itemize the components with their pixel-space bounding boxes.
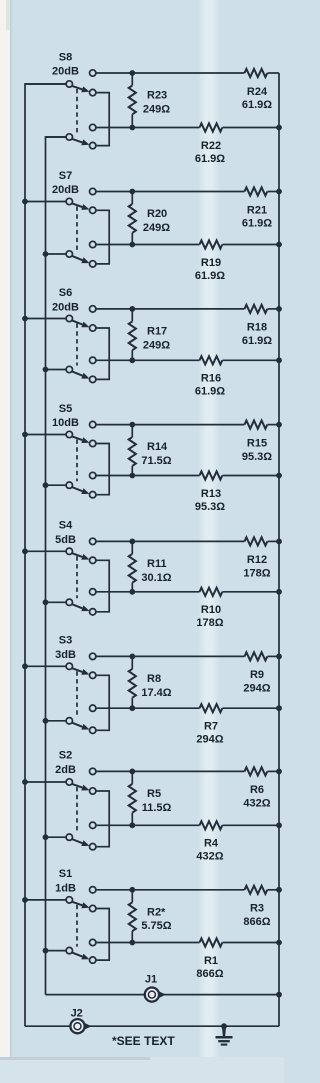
svg-text:178Ω: 178Ω — [243, 568, 270, 580]
wire: S7 top row — [96, 191, 245, 193]
resistor R16 61.9Ω — [200, 356, 223, 364]
node: S7 junctions — [129, 189, 135, 195]
wire: S1 pole 1 stub — [25, 899, 66, 901]
svg-text:R22: R22 — [201, 140, 221, 152]
wire: S2 pole 2 stub — [46, 836, 67, 838]
switch S3 pole/throw contacts — [90, 653, 96, 659]
wire: S5 pole 1 stub — [25, 434, 66, 436]
switch S4 pole/throw contacts — [90, 538, 96, 544]
svg-text:R12: R12 — [247, 554, 267, 566]
svg-text:S8: S8 — [59, 51, 72, 63]
wire: S1 pole 2 stub — [46, 950, 67, 952]
switch S8 pole/throw contacts — [90, 70, 96, 76]
switch S1 lever arrows — [72, 902, 83, 906]
wire: S6 mid row — [96, 359, 200, 361]
svg-text:J2: J2 — [71, 1008, 83, 1020]
resistor R3 866Ω — [245, 886, 268, 894]
switch S6 pole/throw contacts — [90, 306, 96, 312]
svg-text:S5: S5 — [59, 403, 72, 415]
switch S7 pole/throw contacts — [90, 188, 96, 194]
switch S8 gang link (dashed) — [76, 89, 78, 133]
wire: S5 bypass link — [96, 444, 109, 495]
wire: S2 top row — [96, 770, 245, 772]
node: S6 junctions — [129, 306, 135, 312]
svg-text:R20: R20 — [147, 208, 167, 220]
svg-text:R9: R9 — [250, 669, 264, 681]
wire: left bus B (pole-2 bus, top corner to J1 row) — [46, 137, 67, 995]
node: J1 row meets right bus — [276, 992, 282, 998]
svg-text:61.9Ω: 61.9Ω — [195, 386, 225, 398]
switch S6 lever arrows — [72, 320, 83, 324]
svg-text:S4: S4 — [59, 520, 73, 532]
resistor R24 61.9Ω — [245, 69, 268, 77]
svg-text:95.3Ω: 95.3Ω — [242, 451, 272, 463]
wire: S4 top row — [96, 540, 245, 542]
switch S2 gang link (dashed) — [76, 787, 78, 833]
svg-text:R4: R4 — [204, 838, 219, 850]
svg-text:R13: R13 — [201, 488, 221, 500]
resistor R5 11.5Ω — [131, 771, 133, 784]
svg-text:61.9Ω: 61.9Ω — [242, 99, 272, 111]
resistor R14 71.5Ω — [131, 425, 133, 438]
wire: S4 pole 1 stub — [25, 550, 66, 552]
svg-text:R10: R10 — [201, 604, 221, 616]
svg-text:R5: R5 — [147, 788, 161, 800]
svg-text:20dB: 20dB — [52, 184, 79, 196]
wire: S2 pole 1 stub — [25, 781, 66, 783]
resistor R11 30.1Ω — [131, 541, 133, 554]
svg-text:S2: S2 — [59, 750, 72, 762]
svg-text:249Ω: 249Ω — [143, 339, 170, 351]
switch S5 pole/throw contacts — [90, 421, 96, 427]
wire: S6 bypass link — [96, 328, 109, 379]
svg-text:R24: R24 — [247, 86, 268, 98]
svg-text:S3: S3 — [59, 635, 72, 647]
resistor R12 178Ω — [245, 537, 268, 545]
svg-text:294Ω: 294Ω — [196, 734, 223, 746]
svg-text:20dB: 20dB — [52, 66, 79, 78]
svg-text:R2*: R2* — [147, 906, 166, 918]
wire: S7 bypass link — [96, 210, 109, 264]
resistor R8 17.4Ω — [131, 656, 133, 669]
svg-text:866Ω: 866Ω — [243, 916, 270, 928]
svg-text:20dB: 20dB — [52, 302, 79, 314]
svg-text:5dB: 5dB — [55, 534, 76, 546]
node: S2 junctions — [129, 769, 135, 775]
svg-text:R21: R21 — [247, 204, 267, 216]
wire: S4 pole 2 stub — [46, 601, 67, 603]
wire: J1 row — [46, 994, 280, 996]
switch S1 pole/throw contacts — [90, 887, 96, 893]
wire: S1 mid row — [96, 942, 200, 944]
wire: S8 pole 1 stub — [25, 83, 66, 85]
resistor R18 61.9Ω — [245, 305, 268, 313]
wire: S1 top row — [96, 889, 245, 891]
resistor R17 249Ω — [131, 309, 133, 322]
svg-text:71.5Ω: 71.5Ω — [141, 455, 171, 467]
svg-text:249Ω: 249Ω — [143, 103, 170, 115]
wire: S3 pole 1 stub — [25, 665, 66, 667]
svg-text:R15: R15 — [247, 437, 267, 449]
switch S1 gang link (dashed) — [76, 905, 78, 947]
resistor R1 866Ω — [200, 938, 223, 946]
svg-text:R14: R14 — [147, 441, 168, 453]
svg-text:1dB: 1dB — [55, 882, 76, 894]
switch S7 lever arrows — [72, 203, 83, 207]
wire: left bus A (pole-1 bus, top corner to J2 row) — [25, 84, 66, 1026]
wire: S4 mid row — [96, 591, 200, 593]
resistor R23 249Ω — [131, 73, 133, 86]
wire: S3 mid row — [96, 707, 200, 709]
wire: S4 bypass link — [96, 560, 109, 612]
switch S2 pole/throw contacts — [90, 768, 96, 774]
svg-text:17.4Ω: 17.4Ω — [141, 687, 171, 699]
switch S2 lever arrows — [72, 784, 83, 788]
wire: S8 pole 2 stub — [46, 136, 67, 138]
svg-text:*SEE TEXT: *SEE TEXT — [112, 1034, 175, 1048]
wire: S7 pole 2 stub — [46, 253, 67, 255]
wire: S6 pole 1 stub — [25, 318, 66, 320]
wire: S5 top row — [96, 424, 245, 426]
svg-text:10dB: 10dB — [52, 417, 79, 429]
wire: S2 mid row — [96, 824, 200, 826]
resistor R9 294Ω — [245, 652, 268, 660]
wire: S8 mid row — [96, 127, 200, 129]
svg-text:R23: R23 — [147, 90, 167, 102]
resistor R19 61.9Ω — [200, 240, 223, 248]
wire: S1 bypass link — [96, 909, 109, 961]
svg-text:61.9Ω: 61.9Ω — [242, 335, 272, 347]
resistor R20 249Ω — [131, 192, 133, 205]
wire: S8 bypass link — [96, 93, 109, 146]
wire: S6 top row — [96, 308, 245, 310]
wire: S5 mid row — [96, 475, 200, 477]
wire: S5 pole 2 stub — [46, 484, 67, 486]
node: S1 junctions — [129, 887, 135, 893]
svg-text:294Ω: 294Ω — [243, 683, 270, 695]
svg-text:866Ω: 866Ω — [196, 968, 223, 980]
resistor R6 432Ω — [245, 767, 268, 775]
switch S7 gang link (dashed) — [76, 207, 78, 251]
svg-text:R1: R1 — [204, 955, 218, 967]
switch S3 gang link (dashed) — [76, 671, 78, 717]
wire: S3 top row — [96, 655, 245, 657]
wire: right ground bus — [278, 73, 280, 1026]
svg-text:61.9Ω: 61.9Ω — [242, 218, 272, 230]
svg-text:R3: R3 — [250, 903, 264, 915]
resistor R15 95.3Ω — [245, 421, 268, 429]
resistor R21 61.9Ω — [245, 187, 268, 195]
switch S3 lever arrows — [72, 668, 83, 672]
resistor R4 432Ω — [200, 821, 223, 829]
switch S6 gang link (dashed) — [76, 324, 78, 366]
node: S8 junctions — [129, 70, 135, 76]
resistor R13 95.3Ω — [200, 471, 223, 479]
resistor R22 61.9Ω — [200, 123, 223, 131]
svg-text:61.9Ω: 61.9Ω — [195, 153, 225, 165]
svg-text:5.75Ω: 5.75Ω — [141, 920, 171, 932]
resistor R7 294Ω — [200, 704, 223, 712]
wire: S7 pole 1 stub — [25, 201, 66, 203]
svg-text:J1: J1 — [145, 973, 157, 985]
svg-text:S6: S6 — [59, 287, 72, 299]
svg-text:30.1Ω: 30.1Ω — [141, 572, 171, 584]
wire: S2 bypass link — [96, 791, 109, 847]
svg-text:S1: S1 — [59, 868, 72, 880]
svg-text:R17: R17 — [147, 326, 167, 338]
resistor R2* 5.75Ω — [131, 890, 133, 903]
svg-text:R18: R18 — [247, 322, 267, 334]
svg-text:R19: R19 — [201, 257, 221, 269]
ground — [221, 1023, 227, 1029]
switch S5 lever arrows — [72, 436, 83, 440]
node: S3 junctions — [129, 654, 135, 660]
wire: S7 mid row — [96, 244, 200, 246]
svg-text:R16: R16 — [201, 373, 221, 385]
svg-text:R7: R7 — [204, 721, 218, 733]
svg-text:249Ω: 249Ω — [143, 222, 170, 234]
node: S4 junctions — [129, 539, 135, 545]
svg-text:R6: R6 — [250, 784, 264, 796]
svg-text:R11: R11 — [147, 558, 167, 570]
svg-text:R8: R8 — [147, 673, 161, 685]
wire: S8 top row — [96, 72, 245, 74]
wire: S3 bypass link — [96, 675, 109, 730]
svg-text:95.3Ω: 95.3Ω — [195, 501, 225, 513]
svg-text:432Ω: 432Ω — [196, 851, 223, 863]
svg-text:2dB: 2dB — [55, 764, 76, 776]
svg-text:11.5Ω: 11.5Ω — [142, 802, 172, 814]
switch S4 gang link (dashed) — [76, 556, 78, 598]
svg-text:61.9Ω: 61.9Ω — [195, 270, 225, 282]
svg-text:432Ω: 432Ω — [243, 798, 270, 810]
resistor R10 178Ω — [200, 588, 223, 596]
wire: S6 pole 2 stub — [46, 369, 67, 371]
node: S5 junctions — [129, 422, 135, 428]
wire: J2 bottom row — [25, 1025, 279, 1027]
switch S4 lever arrows — [72, 553, 83, 557]
svg-text:178Ω: 178Ω — [196, 617, 223, 629]
switch S8 lever arrows — [72, 86, 83, 90]
svg-text:S7: S7 — [59, 170, 72, 182]
svg-text:3dB: 3dB — [55, 649, 76, 661]
switch S5 gang link (dashed) — [76, 440, 78, 482]
wire: S3 pole 2 stub — [46, 720, 67, 722]
